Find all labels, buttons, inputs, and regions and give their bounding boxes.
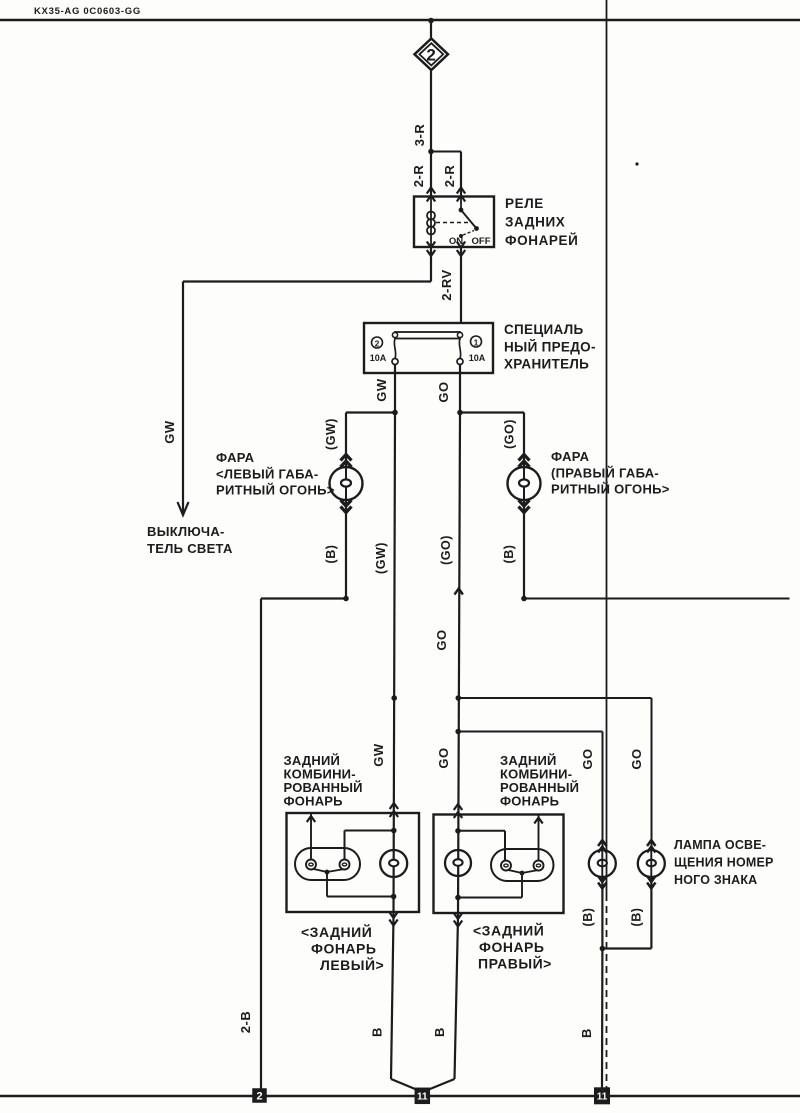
svg-text:B: B: [370, 1027, 385, 1037]
svg-text:11: 11: [417, 1091, 428, 1102]
svg-text:2: 2: [426, 46, 436, 65]
svg-text:B: B: [579, 1028, 594, 1038]
svg-text:РИТНЫЙ ОГОНЬ>: РИТНЫЙ ОГОНЬ>: [216, 483, 335, 498]
svg-text:ЩЕНИЯ НОМЕР: ЩЕНИЯ НОМЕР: [674, 856, 774, 870]
svg-text:10A: 10A: [370, 353, 387, 363]
svg-text:2: 2: [375, 339, 380, 349]
svg-text:GW: GW: [374, 378, 389, 402]
svg-text:ФАРА: ФАРА: [216, 450, 255, 465]
svg-text:3-R: 3-R: [412, 124, 427, 147]
svg-text:GO: GO: [580, 748, 595, 769]
svg-text:(GW): (GW): [324, 418, 338, 450]
svg-text:<ЗАДНИЙ: <ЗАДНИЙ: [301, 923, 372, 940]
svg-text:B: B: [432, 1027, 447, 1037]
svg-text:2: 2: [256, 1090, 262, 1102]
svg-text:ФОНАРЕЙ: ФОНАРЕЙ: [505, 233, 578, 248]
svg-text:OFF: OFF: [472, 236, 491, 247]
svg-text:(ПРАВЫЙ ГАБА-: (ПРАВЫЙ ГАБА-: [551, 466, 659, 481]
svg-text:<ЛЕВЫЙ ГАБА-: <ЛЕВЫЙ ГАБА-: [216, 467, 319, 482]
svg-text:РЕЛЕ: РЕЛЕ: [505, 196, 544, 211]
svg-text:GO: GO: [629, 748, 644, 769]
svg-text:ON: ON: [449, 236, 463, 247]
svg-text:(B): (B): [324, 545, 338, 564]
svg-text:10A: 10A: [469, 353, 486, 363]
svg-text:ХРАНИТЕЛЬ: ХРАНИТЕЛЬ: [504, 357, 589, 372]
svg-text:СПЕЦИАЛЬ: СПЕЦИАЛЬ: [504, 322, 584, 337]
svg-text:ФОНАРЬ: ФОНАРЬ: [284, 794, 343, 809]
svg-text:GO: GO: [436, 381, 451, 402]
svg-text:ЛЕВЫЙ>: ЛЕВЫЙ>: [320, 956, 384, 973]
svg-text:2-R: 2-R: [411, 165, 426, 188]
svg-text:НЫЙ ПРЕДО-: НЫЙ ПРЕДО-: [504, 340, 596, 355]
svg-text:НОГО ЗНАКА: НОГО ЗНАКА: [674, 873, 757, 887]
svg-text:2-R: 2-R: [442, 165, 457, 188]
svg-text:(B): (B): [581, 908, 595, 927]
svg-text:ТЕЛЬ СВЕТА: ТЕЛЬ СВЕТА: [147, 541, 233, 556]
svg-text:ВЫКЛЮЧА-: ВЫКЛЮЧА-: [147, 524, 225, 539]
svg-text:(B): (B): [502, 545, 516, 564]
svg-text:ЛАМПА ОСВЕ-: ЛАМПА ОСВЕ-: [674, 838, 766, 852]
svg-text:ФОНАРЬ: ФОНАРЬ: [500, 794, 559, 809]
svg-text:2-RV: 2-RV: [439, 269, 454, 300]
svg-text:GO: GO: [434, 629, 449, 650]
svg-text:(B): (B): [630, 908, 644, 927]
svg-text:11: 11: [597, 1091, 608, 1102]
svg-text:GO: GO: [436, 747, 451, 768]
svg-text:<ЗАДНИЙ: <ЗАДНИЙ: [473, 922, 544, 939]
svg-text:ФОНАРЬ: ФОНАРЬ: [311, 941, 376, 957]
svg-text:(GO): (GO): [439, 535, 453, 565]
svg-text:ЗАДНИХ: ЗАДНИХ: [505, 215, 565, 230]
svg-text:GW: GW: [371, 743, 386, 767]
svg-text:1: 1: [474, 338, 479, 348]
svg-text:GW: GW: [162, 420, 177, 444]
svg-text:ПРАВЫЙ>: ПРАВЫЙ>: [478, 955, 552, 972]
svg-text:ФОНАРЬ: ФОНАРЬ: [479, 939, 544, 955]
svg-text:ФАРА: ФАРА: [551, 449, 590, 464]
svg-text:KX35-AG 0C0603-GG: KX35-AG 0C0603-GG: [34, 6, 141, 17]
svg-text:(GO): (GO): [503, 419, 517, 449]
svg-text:2-B: 2-B: [238, 1011, 253, 1033]
svg-text:РИТНЫЙ ОГОНЬ>: РИТНЫЙ ОГОНЬ>: [551, 482, 670, 497]
svg-text:(GW): (GW): [374, 542, 388, 574]
